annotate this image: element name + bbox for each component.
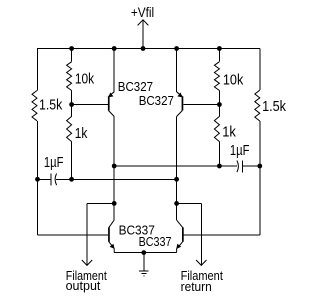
svg-text:1µF: 1µF <box>230 143 250 159</box>
svg-text:1k: 1k <box>222 125 236 141</box>
svg-text:1.5k: 1.5k <box>262 99 287 115</box>
svg-text:output: output <box>66 278 101 293</box>
svg-text:1µF: 1µF <box>44 155 64 171</box>
svg-text:10k: 10k <box>223 72 244 88</box>
svg-text:BC337: BC337 <box>139 234 172 249</box>
svg-text:BC327: BC327 <box>118 79 153 94</box>
svg-text:10k: 10k <box>75 72 95 88</box>
svg-text:return: return <box>181 279 212 294</box>
svg-text:1k: 1k <box>75 126 88 142</box>
svg-text:1.5k: 1.5k <box>39 98 63 114</box>
svg-text:+Vfil: +Vfil <box>131 5 154 20</box>
svg-text:BC327: BC327 <box>139 93 174 108</box>
